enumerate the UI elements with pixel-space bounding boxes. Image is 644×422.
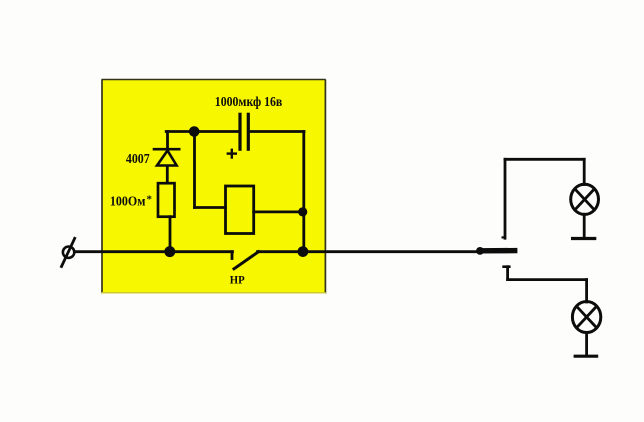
svg-text:1000мкф 16в: 1000мкф 16в xyxy=(215,94,282,109)
svg-text:4007: 4007 xyxy=(126,152,150,167)
svg-text:100Ом: 100Ом xyxy=(110,194,146,209)
svg-text:*: * xyxy=(147,194,153,206)
svg-text:НР: НР xyxy=(230,274,245,286)
